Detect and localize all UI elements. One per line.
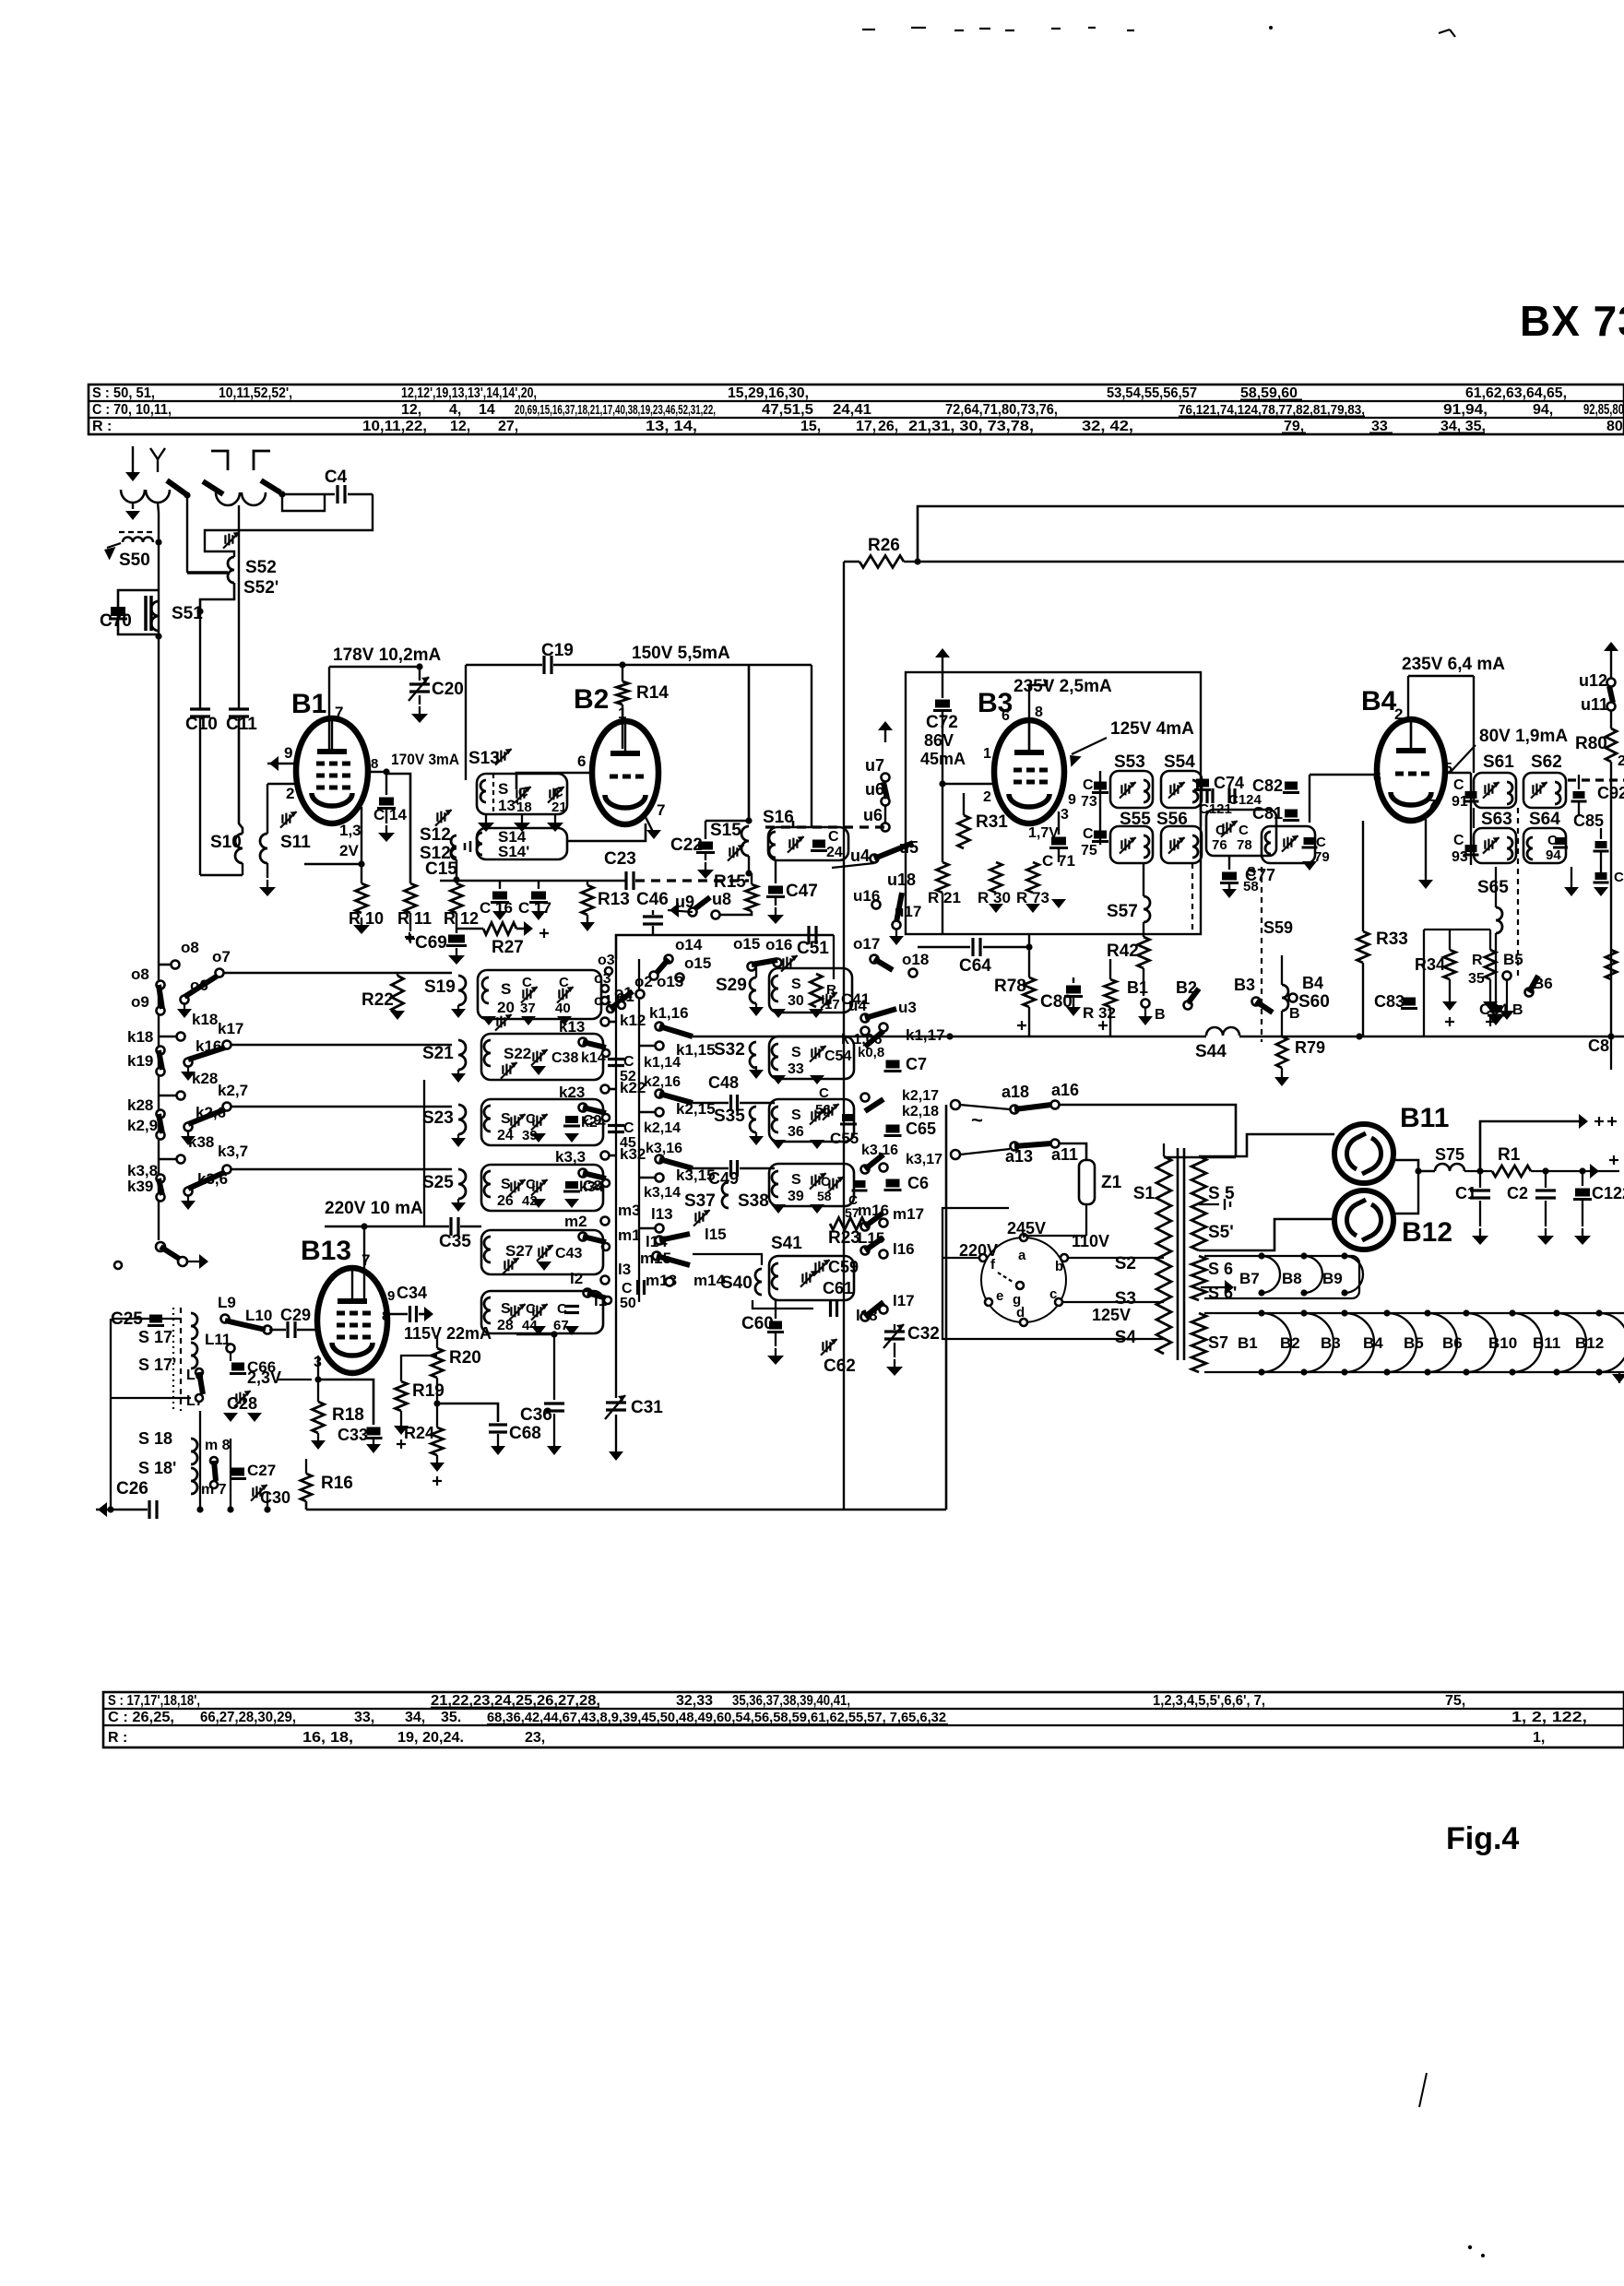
svg-text:170V 3mA: 170V 3mA: [391, 751, 459, 768]
pin7 ground: [1425, 819, 1427, 883]
contact k22: [601, 1085, 610, 1094]
aerial coil S52 S52': [228, 557, 234, 583]
svg-text:1, 2, 122,: 1, 2, 122,: [1511, 1710, 1587, 1725]
switch lever c: [261, 480, 280, 492]
svg-text:C: C: [622, 1281, 633, 1297]
svg-text:125V: 125V: [1092, 1306, 1131, 1324]
svg-text:S 6: S 6: [1208, 1260, 1233, 1278]
svg-text:C: C: [1453, 777, 1464, 793]
svg-text:m17: m17: [893, 1205, 924, 1223]
capacitor C36: [516, 1333, 554, 1336]
capacitor C65: [886, 1125, 900, 1133]
svg-text:B4: B4: [1363, 1334, 1383, 1352]
svg-text:33,: 33,: [354, 1710, 374, 1725]
svg-text:6: 6: [1002, 708, 1010, 724]
centre tap: [1199, 1203, 1219, 1205]
switch lever S0 a: [167, 480, 186, 494]
svg-text:S 17': S 17': [138, 1356, 176, 1374]
svg-text:B2: B2: [1280, 1334, 1300, 1352]
box S27: [481, 1230, 603, 1274]
svg-text:19, 20,24.: 19, 20,24.: [397, 1730, 464, 1746]
svg-text:R78: R78: [994, 977, 1026, 996]
dashed gang S59 S60: [1261, 867, 1262, 1042]
svg-text:22mA: 22mA: [446, 1324, 492, 1343]
svg-text:R18: R18: [332, 1405, 364, 1425]
svg-text:k3,17: k3,17: [906, 1152, 942, 1167]
wire S16 to C47: [775, 860, 776, 873]
svg-text:C48: C48: [708, 1073, 739, 1092]
pin6 wire to C82: [1310, 774, 1377, 776]
wire selector box: [939, 1213, 955, 1214]
svg-text:C: C: [518, 785, 528, 800]
svg-text:k2,18: k2,18: [902, 1104, 939, 1119]
contact u7 u6: [884, 724, 886, 742]
svg-text:B6: B6: [1442, 1334, 1463, 1352]
svg-text:26,: 26,: [878, 419, 898, 434]
trimmer C58 cap C57: [828, 1179, 830, 1189]
wire C4 lower jog: [282, 495, 325, 511]
svg-text:m2: m2: [564, 1213, 587, 1230]
wire primary top: [1164, 1156, 1236, 1159]
trimmer C32: [884, 1330, 905, 1333]
stray mark bottom right: [1419, 2073, 1427, 2107]
svg-text:35,36,37,38,39,40,41,: 35,36,37,38,39,40,41,: [732, 1693, 850, 1709]
svg-text:C61: C61: [823, 1279, 853, 1297]
wire k27 to S23: [231, 1106, 452, 1108]
svg-text:S: S: [791, 1172, 801, 1188]
valve heater chain box: [1204, 1313, 1624, 1372]
svg-text:o9: o9: [131, 993, 149, 1011]
right area resistor: [1606, 950, 1617, 979]
svg-text:S13: S13: [468, 749, 500, 768]
svg-text:k1,14: k1,14: [644, 1055, 681, 1071]
wire B4 pin5: [1445, 772, 1471, 774]
svg-text:S37: S37: [684, 1191, 716, 1211]
box S33: [769, 1036, 854, 1079]
svg-text:C : 26,25,: C : 26,25,: [108, 1710, 174, 1725]
svg-text:S2: S2: [1115, 1254, 1136, 1273]
wire u-column: [884, 806, 886, 823]
svg-text:B10: B10: [1488, 1334, 1517, 1352]
wire bus lower: [918, 561, 1624, 563]
svg-text:35.: 35.: [441, 1710, 461, 1725]
svg-text:39: 39: [788, 1189, 804, 1204]
wire long rail y1123: [693, 1036, 1206, 1038]
svg-text:C81: C81: [1252, 804, 1283, 823]
svg-text:7: 7: [657, 801, 665, 819]
wire B13 plate: [363, 1226, 365, 1300]
svg-text:l3: l3: [618, 1261, 631, 1278]
svg-text:C122: C122: [1592, 1184, 1624, 1202]
svg-text:S21: S21: [422, 1044, 454, 1063]
svg-text:S19: S19: [424, 977, 456, 997]
svg-text:S: S: [501, 980, 511, 998]
wire to C1 node: [1464, 1170, 1492, 1172]
svg-text:a: a: [1018, 1248, 1026, 1263]
svg-text:C: C: [623, 1120, 634, 1136]
svg-text:7: 7: [362, 1251, 370, 1269]
svg-text:u12: u12: [1579, 671, 1607, 690]
svg-text:C 16: C 16: [480, 899, 513, 917]
wire C4 right drop: [205, 494, 373, 557]
trimmer C28: [235, 1393, 237, 1403]
svg-text:S: S: [501, 1111, 511, 1127]
wire 178V rail: [329, 666, 420, 668]
svg-text:e: e: [996, 1288, 1003, 1304]
svg-text:5: 5: [1444, 761, 1452, 776]
svg-text:C35: C35: [439, 1232, 471, 1251]
svg-text:S60: S60: [1298, 992, 1330, 1012]
svg-text:1,3: 1,3: [339, 822, 362, 839]
resistor R13: [587, 881, 588, 885]
svg-text:C: C: [1453, 833, 1464, 848]
svg-text:k28: k28: [127, 1096, 153, 1114]
svg-text:7: 7: [1428, 798, 1436, 813]
capacitor C7: [886, 1060, 900, 1069]
capacitor C11: [229, 707, 249, 710]
svg-text:91,94,: 91,94,: [1443, 402, 1488, 418]
svg-text:C 17: C 17: [518, 899, 551, 917]
svg-text:B1: B1: [1127, 978, 1148, 997]
svg-text:C31: C31: [631, 1398, 663, 1417]
wire S-column vertical: [423, 1080, 425, 1226]
trimmer C21: [549, 789, 551, 799]
capacitor C4: [282, 493, 335, 496]
svg-text:k18: k18: [192, 1011, 218, 1028]
svg-text:S65: S65: [1477, 878, 1509, 897]
svg-text:75,: 75,: [1445, 1693, 1465, 1709]
wire backbone pair: [615, 959, 617, 1302]
svg-text:l2: l2: [570, 1270, 583, 1287]
wire S40 bottom: [753, 1300, 813, 1309]
svg-text:8: 8: [382, 1309, 389, 1324]
svg-text:C30: C30: [260, 1488, 290, 1507]
core S51: [144, 596, 148, 631]
svg-text:S29: S29: [716, 976, 747, 995]
svg-text:79,: 79,: [1284, 419, 1304, 434]
capacitor C47: [775, 873, 776, 883]
svg-text:24: 24: [826, 845, 843, 860]
pin 2 wire: [267, 783, 300, 786]
resistor R78: [1028, 934, 1030, 977]
pin 6 wire: [516, 773, 592, 789]
svg-text:24: 24: [497, 1128, 514, 1143]
svg-text:58: 58: [817, 1189, 832, 1203]
heavy dashed right: [1568, 778, 1624, 781]
resistor R16: [305, 1459, 307, 1474]
wire R12 bottom / C69: [456, 913, 457, 933]
socket cup 4: [242, 492, 266, 505]
svg-text:C: C: [821, 1174, 830, 1189]
svg-text:R 21: R 21: [928, 889, 961, 906]
svg-text:20: 20: [497, 999, 515, 1016]
capacitor C69: [448, 935, 465, 943]
svg-text:2: 2: [1618, 753, 1624, 769]
svg-text:k3,16: k3,16: [646, 1141, 682, 1156]
svg-text:R31: R31: [976, 812, 1008, 832]
svg-text:R :: R :: [108, 1730, 127, 1746]
small cap S12-S14 link: [464, 843, 467, 850]
svg-text:k3,3: k3,3: [555, 1148, 586, 1166]
svg-text:C60: C60: [741, 1314, 774, 1333]
svg-text:S41: S41: [771, 1234, 802, 1253]
fuse Z1: [1079, 1160, 1095, 1204]
svg-text:S4: S4: [1115, 1328, 1137, 1347]
svg-text:k12: k12: [620, 1012, 646, 1029]
ground below C20: [419, 706, 421, 714]
svg-text:C28: C28: [227, 1394, 257, 1413]
wire left column long vertical: [158, 636, 160, 942]
svg-text:k22: k22: [620, 1079, 646, 1096]
wire o7 to S19: [223, 972, 452, 975]
svg-text:B1: B1: [1238, 1334, 1258, 1352]
antenna symbol Y: [150, 448, 158, 459]
svg-text:S54: S54: [1164, 752, 1195, 772]
svg-text:R 12: R 12: [444, 909, 479, 928]
svg-text:79: 79: [1314, 849, 1330, 865]
svg-text:C92: C92: [1597, 784, 1624, 802]
svg-text:C2: C2: [1507, 1184, 1528, 1202]
svg-text:9: 9: [387, 1288, 395, 1304]
svg-text:S53: S53: [1114, 752, 1145, 772]
IF box S59 area: [1262, 826, 1315, 863]
svg-text:37: 37: [520, 1001, 536, 1016]
capacitor C6: [886, 1179, 900, 1188]
svg-text:C: C: [1239, 823, 1249, 838]
svg-text:S : 17,17',18,18',: S : 17,17',18,18',: [108, 1693, 200, 1709]
svg-text:B1: B1: [291, 689, 326, 719]
capacitor C45: [608, 1124, 624, 1127]
svg-text:R23: R23: [828, 1228, 860, 1248]
svg-text:g: g: [1013, 1292, 1021, 1308]
svg-text:C34: C34: [397, 1284, 427, 1302]
svg-text:o8: o8: [131, 965, 149, 983]
svg-text:R13: R13: [598, 890, 630, 909]
svg-text:B11: B11: [1533, 1334, 1560, 1352]
svg-text:o15: o15: [684, 954, 711, 972]
svg-text:a16: a16: [1051, 1081, 1079, 1099]
heavy dashed AVC wire: [765, 825, 885, 828]
svg-text:S : 50, 51,: S : 50, 51,: [92, 385, 155, 401]
svg-text:78: 78: [1237, 837, 1252, 853]
svg-text:S62: S62: [1531, 752, 1562, 772]
wire 125V to S3: [1062, 1301, 1164, 1303]
svg-text:C: C: [1316, 835, 1326, 850]
svg-text:1: 1: [983, 746, 991, 762]
svg-text:S5': S5': [1208, 1223, 1234, 1242]
wire C11 branch: [238, 505, 240, 708]
wire C64: [918, 946, 970, 949]
svg-text:76: 76: [1212, 837, 1227, 853]
trimmer C56: [811, 1111, 812, 1120]
svg-text:k17: k17: [218, 1020, 243, 1037]
svg-text:C: C: [557, 1301, 567, 1317]
oscillator box S14: [477, 828, 567, 859]
svg-text:C11: C11: [226, 715, 257, 734]
svg-text:C: C: [1614, 870, 1624, 885]
supply arrow top: [942, 652, 943, 672]
wire grid bias 2V: [304, 863, 362, 866]
wire C10 branch: [199, 611, 201, 708]
svg-text:C 71: C 71: [1042, 852, 1075, 870]
svg-text:S: S: [498, 780, 508, 798]
svg-text:94: 94: [1546, 847, 1561, 863]
dial lamps box B7 B8 B9: [1204, 1256, 1359, 1298]
svg-text:S40: S40: [721, 1273, 753, 1293]
capacitor C74: [1196, 779, 1209, 788]
svg-text:B8: B8: [1282, 1270, 1302, 1287]
contact o2 circle: [636, 990, 645, 999]
svg-text:66,27,28,30,29,: 66,27,28,30,29,: [200, 1710, 296, 1725]
svg-text:S51: S51: [172, 604, 203, 623]
svg-text:k34: k34: [579, 1179, 604, 1195]
svg-text:21: 21: [551, 800, 567, 815]
svg-text:S44: S44: [1195, 1042, 1227, 1061]
svg-text:B3: B3: [1321, 1334, 1341, 1352]
wire ++ branch: [1480, 1121, 1583, 1171]
svg-text:S: S: [501, 1301, 511, 1317]
svg-text:21,22,23,24,25,26,27,28,: 21,22,23,24,25,26,27,28,: [431, 1693, 600, 1709]
svg-text:C: C: [1083, 826, 1094, 842]
svg-text:S38: S38: [738, 1191, 769, 1211]
svg-text:1,2,3,4,5,5',6,6', 7,: 1,2,3,4,5,5',6,6', 7,: [1153, 1693, 1265, 1709]
svg-text:20,69,15,16,37,18,21,17,40,38,: 20,69,15,16,37,18,21,17,40,38,19,23,46,5…: [515, 402, 716, 418]
box S39: [769, 1164, 854, 1206]
trimmer C43: [538, 1248, 539, 1257]
svg-text:76,121,74,124,78,77,82,81,79,8: 76,121,74,124,78,77,82,81,79,83,: [1179, 402, 1365, 418]
svg-text:2: 2: [1394, 705, 1403, 723]
svg-text:178V 10,2mA: 178V 10,2mA: [333, 646, 442, 665]
svg-text:u4: u4: [850, 847, 870, 865]
svg-text:50: 50: [620, 1296, 636, 1311]
svg-text:S11: S11: [280, 833, 311, 852]
svg-text:32, 42,: 32, 42,: [1082, 419, 1133, 434]
bottom parts table frame: [103, 1692, 1624, 1747]
socket cup 2: [146, 490, 170, 503]
svg-text:B: B: [1155, 1007, 1166, 1023]
svg-text:14: 14: [479, 402, 495, 418]
svg-text:o16: o16: [765, 936, 792, 953]
svg-text:k2,7: k2,7: [218, 1082, 248, 1099]
capacitor C9: [565, 1116, 578, 1123]
svg-text:9: 9: [1068, 792, 1076, 808]
wire R26 left drop: [843, 562, 845, 1510]
coil S51: [151, 601, 159, 631]
svg-text:S16: S16: [763, 808, 794, 827]
capacitor C75: [1094, 831, 1107, 839]
svg-text:C1: C1: [1455, 1184, 1476, 1202]
trimmer C40: [558, 989, 560, 999]
IF transformer C73 cap: [1094, 782, 1107, 790]
svg-text:C62: C62: [824, 1356, 856, 1376]
svg-text:C32: C32: [907, 1324, 940, 1344]
switch lever b: [203, 481, 223, 494]
pin1 wire: [942, 783, 994, 786]
svg-text:k32: k32: [620, 1145, 646, 1163]
svg-text:S23: S23: [422, 1108, 454, 1128]
wire right vertical stubs: [1473, 808, 1475, 828]
svg-text:S32: S32: [714, 1040, 745, 1060]
svg-text:C26: C26: [116, 1479, 148, 1498]
svg-text:16, 18,: 16, 18,: [302, 1730, 353, 1746]
capacitor C68: [437, 1404, 498, 1422]
svg-text:B13: B13: [301, 1236, 351, 1266]
resistor R19: [396, 1381, 408, 1411]
ground below C69: [456, 948, 457, 955]
svg-text:S: S: [791, 977, 801, 992]
trimmer C54: [811, 1048, 812, 1058]
wire C15 line: [440, 880, 456, 882]
capacitor C33: [367, 1427, 381, 1436]
trimmer C37: [522, 989, 524, 999]
pin 7 ground: [646, 817, 653, 832]
svg-text:C7: C7: [906, 1055, 927, 1073]
wire S52 to C10 line: [200, 583, 234, 611]
svg-text:o13: o13: [657, 973, 683, 990]
svg-text:27,: 27,: [498, 419, 518, 434]
svg-text:Fig.4: Fig.4: [1446, 1821, 1519, 1856]
ground below C22: [705, 862, 706, 870]
svg-text:l16: l16: [893, 1240, 915, 1258]
wire S5 to B11 B12: [1199, 1134, 1334, 1156]
wire S17 left: [110, 1319, 112, 1510]
wire backbone top: [616, 935, 834, 959]
svg-text:35: 35: [1468, 971, 1485, 987]
svg-text:l13: l13: [651, 1205, 673, 1223]
svg-text:23,: 23,: [525, 1730, 545, 1746]
svg-text:k28: k28: [192, 1070, 218, 1087]
svg-text:S 18': S 18': [138, 1459, 176, 1477]
resistor R79: [1276, 1036, 1287, 1068]
svg-text:C22: C22: [670, 835, 703, 855]
svg-text:R24: R24: [404, 1424, 434, 1442]
capacitor C10: [190, 707, 210, 710]
svg-text:o14: o14: [675, 936, 703, 953]
svg-text:m1: m1: [618, 1226, 641, 1244]
capacitor C22: [705, 820, 749, 823]
trimmer C56b: [824, 1107, 825, 1116]
svg-text:10,11,52,52',: 10,11,52,52',: [219, 385, 292, 401]
svg-text:68,36,42,44,67,43,8,9,39,45,50: 68,36,42,44,67,43,8,9,39,45,50,48,49,60,…: [487, 1710, 946, 1725]
svg-text:C33: C33: [338, 1426, 368, 1444]
tube B4: [1377, 719, 1445, 821]
svg-text:R :: R :: [92, 419, 112, 434]
svg-text:C19: C19: [541, 641, 574, 660]
svg-text:R42: R42: [1107, 942, 1139, 961]
trimmer C41: [822, 995, 824, 1004]
wire left column top: [158, 513, 160, 634]
svg-text:S52: S52: [245, 558, 277, 577]
svg-text:75: 75: [1081, 843, 1097, 859]
coil S44: [1206, 1027, 1239, 1036]
svg-text:k1,16: k1,16: [649, 1004, 689, 1022]
svg-text:R34: R34: [1415, 955, 1445, 974]
svg-text:53,54,55,56,57: 53,54,55,56,57: [1107, 385, 1197, 401]
svg-text:S: S: [791, 1045, 801, 1060]
tube B1: [296, 718, 368, 823]
svg-text:B11: B11: [1400, 1103, 1449, 1133]
capacitor C80: [1066, 986, 1081, 994]
svg-text:R26: R26: [868, 536, 900, 555]
svg-text:B5: B5: [1503, 951, 1523, 968]
svg-text:k1,15: k1,15: [676, 1041, 716, 1059]
svg-text:12,: 12,: [401, 402, 421, 418]
box S26: [481, 1165, 603, 1211]
resistor R23: [830, 1218, 865, 1230]
svg-text:u7: u7: [865, 756, 884, 775]
svg-text:C23: C23: [604, 849, 636, 869]
svg-text:B3: B3: [1234, 976, 1255, 994]
